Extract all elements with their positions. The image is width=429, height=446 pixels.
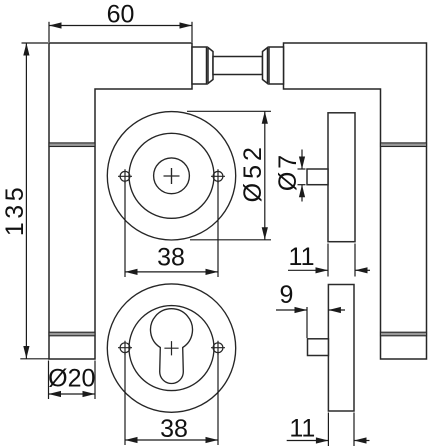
D52 extension line bottom [190, 239, 271, 241]
9 dimension line left [276, 309, 307, 311]
38b arrow right [206, 437, 219, 443]
spindle left collar [192, 47, 207, 84]
60 extension line right [191, 22, 193, 42]
dimension 135 (left) [20, 43, 48, 359]
11 extension line right [354, 244, 356, 277]
dimension D7 (peg of lever rosette) [298, 150, 306, 202]
spindle right ring [263, 48, 268, 84]
side view of key rosette (bottom right) [308, 285, 355, 412]
D7 dimension line top [301, 150, 303, 170]
D52 arrow bottom [262, 227, 268, 240]
135 arrow top [23, 43, 29, 56]
top rosette boss cross [164, 168, 180, 184]
right grip end-cap band [381, 332, 427, 336]
D7 tick bottom [298, 184, 306, 186]
right grip joint band upper [381, 143, 427, 147]
D20 arrow left [49, 391, 62, 397]
svg-text:11: 11 [289, 243, 315, 271]
60 dimension line [49, 25, 192, 27]
dimension 38 (top rosette) [125, 182, 218, 278]
dimension 60 (top) [49, 22, 192, 42]
11 dimension line right [355, 269, 370, 271]
svg-text:9: 9 [279, 281, 293, 309]
D7 dimension line bottom [301, 185, 303, 202]
svg-text:38: 38 [160, 415, 188, 443]
bottom rosette left screw [120, 343, 130, 353]
38 arrow right [206, 269, 219, 275]
D52 dimension line [264, 111, 266, 240]
D20 dimension line [49, 393, 96, 395]
svg-text:11: 11 [289, 415, 315, 443]
11b dimension line left [287, 440, 329, 442]
11b extension line left [327, 413, 329, 446]
11 dimension line left [288, 269, 328, 271]
D52 arrow top [262, 111, 268, 124]
D7 tick top [298, 168, 306, 170]
bottom rosette inner circle [129, 306, 214, 391]
135 arrow bottom [23, 346, 29, 359]
dimension D20 (grip diameter) [49, 361, 96, 400]
D7 arrow top [299, 157, 305, 170]
dimension D52 (right of top rosette) [187, 111, 271, 240]
svg-text:60: 60 [107, 1, 135, 29]
top rosette left screw [120, 171, 130, 181]
top rosette outer circle [107, 112, 235, 240]
top rosette spindle boss circle [154, 158, 190, 194]
svg-text:Ø7: Ø7 [274, 152, 302, 191]
left grip end-cap band [49, 332, 95, 336]
euro profile cylinder keyhole [151, 309, 193, 384]
38 extension line right [217, 182, 219, 278]
svg-text:135: 135 [1, 184, 29, 236]
dimension 11 (key rosette thickness, bottom) [287, 413, 370, 446]
spindle bar [213, 57, 263, 75]
left handle outline [49, 43, 192, 359]
bottom rosette right screw [213, 343, 223, 353]
spindle left ring [208, 48, 213, 84]
38b arrow left [125, 437, 138, 443]
key rosette peg [308, 339, 329, 356]
11b arrow right [354, 437, 367, 443]
11b extension line right [353, 413, 355, 446]
11 extension line left [327, 244, 329, 277]
svg-text:38: 38 [157, 244, 185, 272]
dimension 11 (lever rosette thickness) [288, 244, 370, 277]
dimension 38 (bottom rosette) [125, 353, 218, 445]
side view of lever rosette (middle right) [307, 113, 355, 242]
D20 extension line right [94, 361, 96, 400]
D20 extension line left [48, 361, 50, 400]
60 arrow right [180, 22, 193, 28]
keyhole center cross [164, 341, 178, 355]
11 arrow right [355, 267, 368, 273]
135 dimension line [25, 43, 27, 359]
38 arrow left [125, 269, 138, 275]
135 extension line bottom [20, 358, 48, 360]
9 extension line [306, 307, 308, 338]
38b extension line left [124, 353, 126, 445]
top rosette [107, 112, 235, 240]
D20 arrow right [83, 391, 96, 397]
svg-text:Ø20: Ø20 [48, 365, 95, 393]
9 arrow left [295, 307, 308, 313]
bottom rosette outer circle [107, 284, 235, 412]
D52 extension line top [187, 110, 271, 112]
lever rosette peg (spindle stub) [307, 169, 328, 185]
dimension 9 (key rosette peg protrusion) [276, 307, 345, 338]
svg-text:Ø52: Ø52 [239, 143, 267, 202]
11b dimension line right [354, 440, 370, 442]
38b dimension line [125, 439, 218, 441]
11b arrow left [316, 437, 329, 443]
38 dimension line [125, 271, 218, 273]
D7 arrow bottom [299, 185, 305, 198]
bottom rosette [107, 284, 235, 412]
9 arrow right (inside bar) [328, 307, 341, 313]
top rosette inner circle [129, 133, 214, 218]
60 extension line left [48, 22, 50, 42]
38b extension line right [217, 353, 219, 445]
135 extension line top [22, 42, 49, 44]
top rosette right screw [213, 171, 223, 181]
11 arrow left [316, 267, 329, 273]
right handle outline [284, 43, 427, 359]
spindle right collar [269, 47, 284, 84]
left grip joint band upper [49, 143, 95, 147]
60 arrow left [49, 22, 62, 28]
38 extension line left [124, 182, 126, 278]
